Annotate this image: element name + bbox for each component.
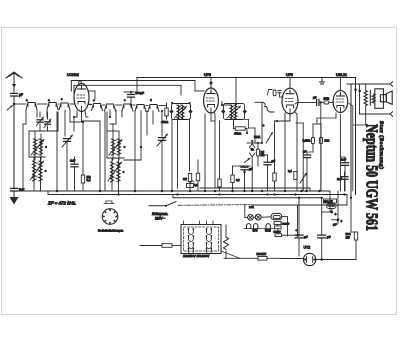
arrow IFT1 trim (175, 107, 187, 119)
svg-text:1M: 1M (183, 177, 188, 181)
wire drop x135 (134, 111, 136, 191)
svg-text:110/130V 150/250V: 110/130V 150/250V (183, 254, 209, 258)
tube socket diagram (104, 201, 114, 204)
switch contact TA/radio (268, 90, 273, 96)
chassis connector symbol (320, 78, 325, 85)
wire row y131 (29, 130, 58, 132)
variable capacitor tuning C2 (159, 138, 166, 141)
trimmer capacitor T1 (37, 120, 43, 122)
wire selector to mains (221, 251, 240, 258)
resistor chain boxes (274, 222, 281, 225)
svg-text:UY2: UY2 (304, 246, 311, 250)
wire drop x189 (189, 119, 191, 171)
svg-text:0,3: 0,3 (194, 183, 198, 187)
capacitor 0.1uF ground (11, 188, 18, 191)
component small box on bus (187, 184, 194, 188)
resistor NSA/2W mains (258, 257, 267, 261)
arrow L2 adjustable (30, 161, 44, 180)
capacitor electrolytic 1 (295, 235, 303, 238)
wire drop x352.8 (352, 106, 354, 191)
resistor 1k pill (319, 137, 322, 143)
wire drop x141 (140, 111, 142, 160)
VDR stadium resistor (271, 213, 282, 219)
switch lever (166, 202, 176, 206)
wire drop x172 (171, 119, 173, 191)
wire S3-tube (70, 103, 74, 105)
svg-text:Sockelschaltungen: Sockelschaltungen (98, 229, 123, 233)
svg-text:+: + (341, 220, 343, 224)
switch contact S5 (105, 104, 116, 111)
arrow antenna trim (7, 106, 13, 111)
svg-text:+: + (335, 213, 337, 217)
speaker connectors (390, 82, 392, 87)
resistor 40k (235, 127, 245, 130)
wire tube-S4 (88, 104, 92, 106)
wire VDR out (282, 216, 288, 218)
capacitor uF det (264, 162, 271, 165)
svg-text:220V ~: 220V ~ (154, 217, 165, 221)
arrow IFT2 trim (227, 106, 241, 118)
switch contact S2 (47, 103, 58, 110)
resistor AVC (188, 174, 191, 182)
wire drop x205 (204, 114, 206, 191)
wire drop x147 (146, 111, 148, 135)
node AF junction (262, 124, 264, 126)
switch contact S8 (148, 105, 159, 112)
capacitor dot L1 (45, 146, 47, 148)
resistor cathode UF5 (218, 179, 221, 187)
capacitor dot pad (140, 146, 142, 148)
wire left inner rail (22, 124, 24, 191)
arrow volume pot (266, 133, 273, 144)
wire top cap (210, 83, 212, 88)
wire det node (247, 142, 262, 144)
wire top rail B+ (137, 77, 355, 79)
wire speaker bottom (360, 113, 391, 115)
wire to contact1 (14, 103, 26, 105)
svg-text:1nF: 1nF (337, 177, 342, 181)
wire L2 to bus (33, 181, 35, 191)
coil L4 oscillator (110, 162, 113, 182)
resistor grid stopper pill (273, 90, 276, 96)
wire UBL side jog (349, 104, 353, 107)
switch mains on/off (149, 205, 166, 207)
switch contact S7 (135, 105, 146, 112)
capacitor 1nF 2 (341, 177, 348, 180)
wire lamp feed (245, 217, 248, 219)
capacitor electrolytic 2 (318, 235, 326, 238)
resistor NSA 2W top (324, 199, 337, 203)
output transformer core (369, 91, 371, 106)
svg-text:0,3: 0,3 (236, 178, 240, 182)
capacitor grid UF5-2 (278, 90, 281, 92)
resistor screen UF5-2 (273, 173, 276, 181)
wire drop x321 (321, 198, 323, 235)
wire drop x177 (177, 123, 179, 188)
switch contact S6 (122, 104, 133, 111)
capacitor dot L4 (122, 171, 124, 173)
tube UBL21 V4 (333, 91, 348, 113)
capacitor coupling UBL (317, 99, 319, 105)
resistor grid leak UBL pill (324, 101, 329, 104)
wire selector stub 3 (206, 221, 208, 225)
svg-text:TA: TA (251, 148, 254, 152)
svg-text:Netzspann.: Netzspann. (152, 212, 168, 216)
wire drop x105 (104, 112, 106, 191)
svg-text:NSA/2W: NSA/2W (257, 253, 267, 256)
wire speaker left leg (359, 84, 361, 114)
wire antenna down (13, 96, 15, 104)
wire x299 upper (298, 224, 300, 235)
wire screen rail down (180, 85, 182, 95)
node antenna junction (13, 103, 16, 106)
arrow L1 adjustable (31, 140, 44, 156)
wire coil junction (29, 156, 45, 158)
wire rect left (281, 258, 303, 260)
svg-text:µF: µF (19, 93, 23, 97)
capacitor 300pF (128, 95, 135, 98)
resistor 0.3M pill (311, 137, 314, 143)
wire rect right (316, 259, 356, 261)
resistor heater dropping (224, 237, 229, 250)
wire AF to switch squiggle (255, 101, 263, 103)
svg-text:UBL21: UBL21 (336, 73, 347, 77)
antenna (6, 72, 22, 78)
voltage selector panel (181, 225, 221, 254)
IFT1 windings (177, 105, 180, 119)
capacitor cathode (304, 155, 311, 158)
wire left rail (13, 104, 15, 188)
wire drop x297 low (297, 205, 299, 235)
resistor 2k 1W (354, 232, 357, 240)
wire bus y188 (200, 187, 310, 189)
svg-text:NSA/W: NSA/W (282, 223, 290, 226)
wire drop x285 (284, 113, 286, 191)
wire jog x303 (296, 122, 303, 124)
switch contact S1 (26, 103, 37, 110)
arrow L3 adjustable (109, 140, 122, 156)
capacitor dot L3 (123, 146, 125, 148)
svg-text:1kΩ: 1kΩ (325, 139, 330, 143)
svg-text:µF: µF (327, 235, 331, 239)
dial lamp 2 (255, 214, 261, 220)
svg-text:2xA: 2xA (249, 205, 254, 209)
resistor 40k osc (165, 108, 168, 116)
resistor 0.5M pill (256, 149, 259, 156)
wire lamp-VDR (261, 216, 271, 218)
heater UCH bump (266, 224, 270, 229)
wire S1 left leg (25, 110, 27, 124)
capacitor AF coupling (241, 167, 248, 170)
tube UCH42 U1 (79, 81, 82, 84)
wire C2 to bus (161, 141, 163, 191)
IFT2 windings (230, 105, 233, 119)
wire bus y198 (173, 197, 322, 199)
svg-text:UMA: UMA (254, 135, 260, 139)
wire IFT2 plate feed (235, 78, 237, 105)
wire grid leak down (320, 102, 322, 191)
wire rail2 lower (350, 198, 352, 232)
ground arrow symbol (10, 197, 19, 205)
wire UF5-2 plate top (289, 78, 291, 89)
svg-text:µF: µF (333, 223, 337, 227)
capacitor 3nF (71, 164, 78, 167)
wire S8 right (159, 105, 163, 107)
svg-text:UF5: UF5 (253, 228, 258, 232)
fuse mains (140, 245, 162, 247)
wire selector stub 2 (199, 221, 201, 225)
svg-text:UCH: UCH (265, 228, 271, 232)
svg-text:UF5: UF5 (204, 73, 211, 77)
switch contact S4 (92, 104, 103, 111)
capacitor antenna coupling (11, 93, 18, 96)
wire drop x307 (306, 158, 308, 191)
heater half bump (247, 224, 251, 229)
svg-text:NSA 2W: NSA 2W (324, 200, 334, 203)
trimmer capacitor T2 (45, 122, 51, 124)
coil L1 antenna (33, 139, 36, 155)
wire speaker top (347, 83, 390, 85)
IF transformer IFT2 shield loop (224, 104, 245, 120)
wire plate link (353, 124, 366, 126)
svg-text:UF5: UF5 (286, 73, 293, 77)
coil L2 antenna (32, 161, 35, 181)
wire main ground bus (14, 190, 330, 192)
wire drop x321 (320, 144, 322, 191)
wire drop x303 (302, 123, 304, 191)
wire bus start (14, 190, 48, 192)
wire drop x297 (296, 114, 298, 191)
tube UF5 V2 (204, 88, 219, 113)
wire y122 (70, 121, 83, 123)
svg-text:NSA/W: NSA/W (274, 231, 282, 234)
svg-text:UCH42: UCH42 (67, 73, 79, 77)
coil L3 oscillator (111, 139, 114, 155)
tube UF5 V3 (282, 88, 298, 114)
output transformer T-out primary (364, 91, 367, 106)
svg-text:40kΩ: 40kΩ (161, 120, 169, 124)
svg-text:1MΩ: 1MΩ (324, 96, 330, 100)
wire C1 to bus (66, 142, 68, 191)
wire selector stub 4 (212, 221, 214, 225)
node filter (330, 211, 333, 214)
wire UBL plate top (339, 78, 341, 91)
arrow L4 adjustable (108, 162, 122, 181)
VDR oval 2 (327, 204, 337, 209)
junction dots on buses (56, 190, 59, 193)
wire bus y194 (48, 194, 347, 196)
TA phono jack (249, 144, 255, 148)
svg-text:0,1: 0,1 (288, 169, 292, 173)
svg-text:40kΩ: 40kΩ (234, 132, 242, 136)
svg-text:MΩ: MΩ (87, 175, 91, 179)
wire AF line up (261, 102, 263, 143)
IF transformer IFT1 shield loop (172, 104, 191, 120)
svg-text:+: + (296, 228, 298, 232)
svg-text:Neptun 50 UGW 561: Neptun 50 UGW 561 (362, 124, 380, 231)
wire to ground (13, 191, 15, 197)
capacitor 1nF tone (342, 163, 349, 166)
wire rail corner down (136, 78, 138, 93)
resistor cathode bias (294, 172, 297, 180)
resistor 2 (196, 173, 199, 181)
arrow AVC tap (245, 158, 251, 163)
wire UBL cathode down (339, 115, 341, 191)
capacitor dot L2 (44, 170, 46, 172)
svg-text:MΩ: MΩ (261, 154, 265, 157)
wire drop x100 (99, 121, 101, 191)
svg-text:1W: 1W (346, 236, 351, 240)
svg-text:µF: µF (304, 235, 308, 239)
wire selector stub 1 (183, 221, 185, 225)
heater UF5 bump (254, 224, 258, 229)
arrow hum pot (300, 173, 307, 183)
resistor 0.1M (81, 175, 84, 183)
wire S1-S2 (37, 103, 47, 105)
svg-text:ZF = 472 kHz.: ZF = 472 kHz. (47, 201, 76, 206)
wire B+ rail down (355, 78, 357, 195)
wire to UF5 grid top (194, 81, 196, 92)
node B+ (354, 88, 357, 91)
wire drop x57 (56, 112, 58, 191)
IFT1 tuning caps (diamonds) (169, 109, 173, 114)
resistor 0.3M (231, 175, 234, 183)
wire resistor up (82, 122, 84, 175)
wire UCH42 frame (70, 81, 72, 92)
dial lamp 1 (248, 215, 254, 221)
svg-text:0,3MΩ: 0,3MΩ (303, 139, 311, 143)
output transformer secondary (372, 94, 375, 103)
wire B+ rail 2 (350, 84, 352, 198)
wire to tuning cap (64, 110, 66, 136)
wire heater row (244, 228, 275, 230)
svg-text:µF: µF (249, 167, 253, 171)
speaker (375, 89, 384, 109)
IFT2 tuning caps (diamonds) (221, 109, 225, 114)
wire heater bus y205 (135, 204, 149, 206)
wire from S2 down (57, 112, 59, 131)
wire drop x215 (214, 115, 216, 188)
node grid UBL (320, 101, 322, 103)
variable capacitor tuning C1 (64, 139, 71, 142)
switch contact S3 (59, 103, 70, 110)
